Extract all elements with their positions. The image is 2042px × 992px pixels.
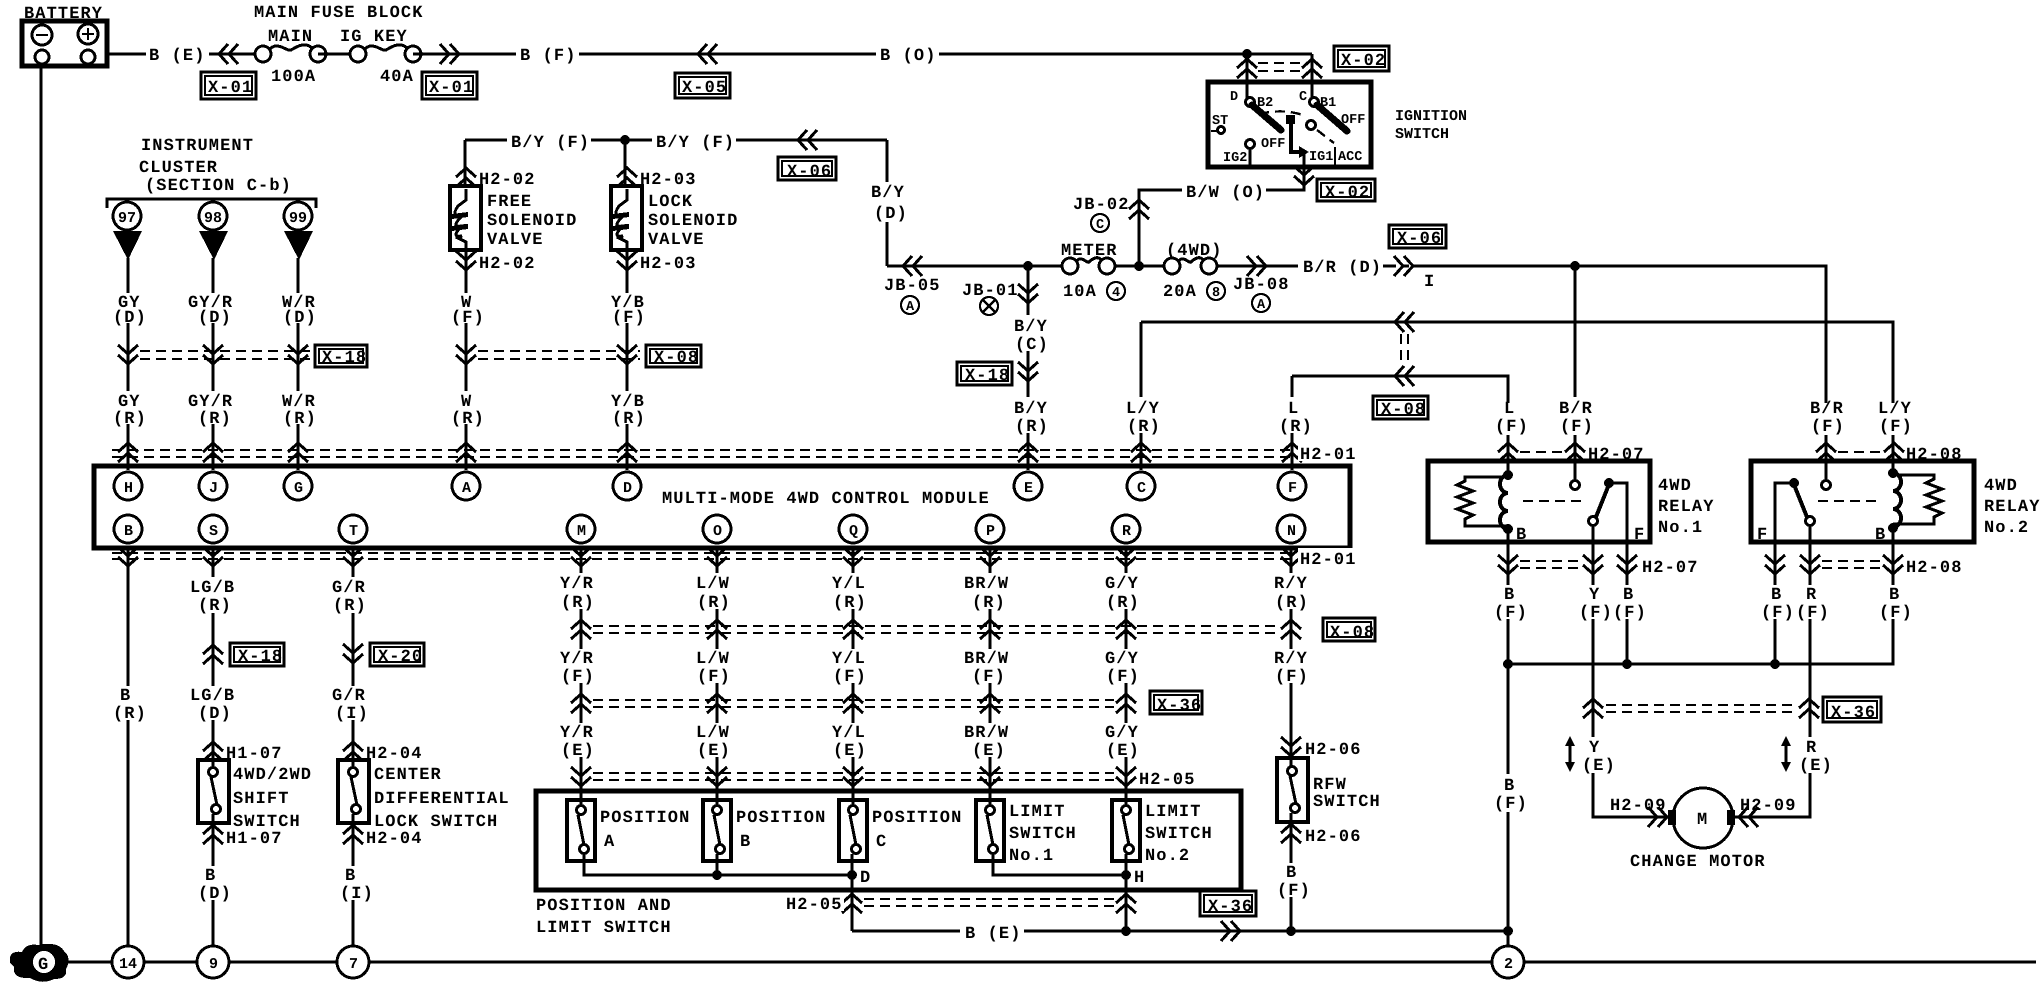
svg-text:(R): (R) [612, 410, 646, 429]
svg-text:SWITCH: SWITCH [1009, 825, 1077, 844]
svg-text:A: A [604, 833, 615, 852]
svg-text:B: B [124, 523, 133, 540]
connector box X-01 [201, 72, 256, 99]
connector chevron X-18 col E [1018, 362, 1038, 381]
svg-text:(D): (D) [283, 309, 317, 328]
label JB-08 [1233, 276, 1290, 313]
ignition switch labels [1212, 90, 1365, 166]
svg-text:20A: 20A [1163, 283, 1197, 302]
ground node 14 [112, 946, 144, 978]
label L/Y (F) relay2 [1872, 400, 1915, 437]
svg-text:LOCK: LOCK [648, 193, 693, 212]
relay1 switch [1589, 478, 1628, 542]
svg-text:B/W (O): B/W (O) [1186, 184, 1265, 203]
svg-text:(R): (R) [113, 410, 147, 429]
label B (F) [516, 43, 579, 66]
wire ignition output [1139, 152, 1304, 266]
connector chevron X-01 right [440, 44, 459, 64]
label B (F) left long wire [1491, 775, 1529, 814]
wire L column F [1291, 376, 1294, 470]
connector box X-02 [1334, 46, 1389, 71]
wire to relay2 corner [1412, 266, 1826, 461]
fuse MAIN 100A [255, 45, 326, 62]
wire 98 down [212, 258, 215, 470]
svg-text:(SECTION C-b): (SECTION C-b) [145, 177, 292, 196]
svg-text:X-36: X-36 [1157, 697, 1202, 716]
junction node B bottom [712, 870, 722, 880]
label BR/W (R) [962, 573, 1017, 613]
wire B/Y (F) row y140 [465, 140, 887, 266]
connector pin 97 [113, 202, 142, 260]
svg-text:B/R: B/R [1559, 400, 1593, 419]
svg-text:H2-09: H2-09 [1610, 797, 1667, 816]
label B/Y (R) [1008, 397, 1051, 437]
svg-text:(F): (F) [1106, 668, 1140, 687]
label B (O) [876, 43, 939, 66]
connector chevron H2-02 top [456, 168, 476, 187]
svg-text:H2-02: H2-02 [479, 255, 536, 274]
svg-text:B: B [1286, 864, 1297, 883]
label G/Y (R) [1103, 573, 1148, 613]
svg-text:DIFFERENTIAL: DIFFERENTIAL [374, 790, 510, 809]
svg-text:D: D [623, 480, 632, 497]
label POSITION AND LIMIT SWITCH [536, 897, 672, 938]
connector box X-18 col S [230, 643, 284, 667]
wire relay2 R down [1732, 542, 1810, 817]
ground node 2 [1492, 946, 1524, 978]
label B/Y (F) right [652, 130, 736, 153]
svg-text:H2-05: H2-05 [786, 896, 843, 915]
label POSITION C [872, 809, 962, 852]
wire L/Y feed to relay2 [1141, 322, 1893, 461]
svg-text:B: B [1516, 526, 1527, 545]
svg-text:X-20: X-20 [378, 648, 423, 667]
wire D down to B(E) [851, 875, 854, 931]
svg-text:14: 14 [119, 956, 137, 973]
svg-text:(F): (F) [1761, 604, 1795, 623]
wire limits internal bus H [993, 854, 1126, 875]
label JB-05 [884, 277, 941, 315]
svg-text:(F): (F) [1796, 604, 1830, 623]
connector box X-06 right [1389, 225, 1446, 249]
svg-text:4: 4 [1112, 286, 1120, 301]
svg-text:7: 7 [349, 956, 358, 973]
svg-text:BR/W: BR/W [964, 650, 1009, 669]
svg-text:(F): (F) [1879, 418, 1913, 437]
relay1 dashed link [1523, 500, 1585, 502]
svg-text:9: 9 [209, 956, 218, 973]
svg-text:L/Y: L/Y [1126, 400, 1160, 419]
svg-text:POSITION: POSITION [736, 809, 826, 828]
svg-text:(R): (R) [333, 597, 367, 616]
svg-text:Y: Y [1589, 739, 1600, 758]
connector chevron H2-04 bottom [343, 825, 363, 844]
svg-text:CLUSTER: CLUSTER [139, 159, 218, 178]
svg-text:H2-08: H2-08 [1906, 559, 1963, 578]
free solenoid valve [450, 186, 481, 250]
svg-text:L/W: L/W [696, 650, 730, 669]
wire B/Y column E [1027, 266, 1030, 470]
svg-text:Y/L: Y/L [832, 575, 866, 594]
svg-text:Q: Q [849, 523, 858, 540]
svg-text:F: F [1757, 526, 1768, 545]
connector chevron H2-03 bottom [617, 251, 637, 270]
wire free solenoid stub [465, 140, 466, 292]
connector X-02 chevrons [1237, 59, 1257, 78]
svg-text:X-08: X-08 [1381, 401, 1426, 420]
4wd relay no.1 box [1428, 461, 1650, 542]
svg-text:F: F [1288, 480, 1297, 497]
label Y (F) relay1 out [1573, 585, 1613, 623]
svg-text:X-06: X-06 [1397, 230, 1442, 249]
label L/W (E) [694, 723, 739, 761]
label L/W (F) [694, 649, 739, 687]
wire B (F) down to circle2 [1507, 664, 1510, 947]
wire positions internal bus D [584, 854, 852, 875]
connector X-36 row chevrons [571, 694, 591, 713]
svg-text:X-18: X-18 [965, 367, 1010, 386]
junction node rfw to B(E) [1286, 926, 1296, 936]
label L/W (R) [694, 573, 739, 613]
ignition common lever [1286, 115, 1309, 158]
relay1 coil stubs [1507, 461, 1510, 542]
wire A down [465, 292, 468, 470]
svg-text:H: H [124, 480, 133, 497]
label GY/R (R) [187, 391, 240, 429]
svg-text:X-02: X-02 [1325, 184, 1370, 203]
svg-text:RELAY: RELAY [1984, 498, 2041, 517]
wire pin R column [1125, 548, 1128, 806]
connector chevron after 20A [1247, 256, 1266, 276]
svg-text:SOLENOID: SOLENOID [487, 212, 577, 231]
label B (E) [146, 43, 209, 66]
multi-mode 4wd control module box [94, 466, 1350, 548]
svg-text:M: M [1697, 811, 1708, 830]
label H2-01 bottom [1298, 548, 1360, 570]
relay2 coil stubs [1892, 461, 1895, 542]
svg-text:BR/W: BR/W [964, 575, 1009, 594]
module pin M [567, 515, 595, 543]
svg-text:(F): (F) [1494, 795, 1528, 814]
lock solenoid label [648, 193, 738, 250]
svg-text:Y/L: Y/L [832, 650, 866, 669]
svg-text:JB-05: JB-05 [884, 277, 941, 296]
svg-text:(F): (F) [697, 668, 731, 687]
svg-text:(D): (D) [113, 309, 147, 328]
label B/R (F) relay1 [1553, 400, 1596, 437]
connector chevron H2-03 top [617, 168, 637, 187]
svg-text:(R): (R) [561, 594, 595, 613]
label B (F) relay2 coil out [1873, 585, 1913, 623]
svg-text:B (O): B (O) [880, 47, 937, 66]
connector X-18 row dashes [140, 351, 310, 359]
svg-text:LG/B: LG/B [190, 579, 235, 598]
svg-text:H2-06: H2-06 [1305, 741, 1362, 760]
connector exit dashes [864, 899, 1114, 906]
svg-text:X-08: X-08 [1330, 624, 1375, 643]
svg-text:2: 2 [1504, 956, 1513, 973]
label POSITION B [736, 809, 826, 852]
label BR/W (F) [962, 649, 1017, 687]
svg-text:4WD: 4WD [1984, 477, 2018, 496]
connector chevron JB-05 [903, 256, 922, 276]
instrument cluster label [139, 137, 292, 196]
svg-text:C: C [876, 833, 887, 852]
connector chevron H1-07 top [203, 742, 223, 761]
junction node meter [1134, 261, 1144, 271]
svg-text:H2-07: H2-07 [1642, 559, 1699, 578]
wire ground bus y664 [1508, 622, 1893, 664]
relay1 coil [1500, 475, 1508, 529]
svg-text:G/Y: G/Y [1105, 724, 1139, 743]
label Y (E) with arrow [1565, 736, 1618, 776]
ignition dashed link [1259, 111, 1306, 116]
svg-text:H2-06: H2-06 [1305, 828, 1362, 847]
connector box X-08 feed [1373, 396, 1428, 420]
relay2 dashed link [1818, 500, 1877, 502]
relay2 switch [1775, 478, 1815, 542]
svg-text:SWITCH: SWITCH [1395, 126, 1449, 143]
svg-text:(F): (F) [1811, 418, 1845, 437]
svg-text:X-05: X-05 [682, 79, 727, 98]
label LIMIT SWITCH No.1 [1009, 803, 1077, 866]
module pin Q [839, 515, 867, 543]
connector chevron H2-04 top [343, 742, 363, 761]
svg-text:I: I [1424, 273, 1435, 292]
wire relay1 B down to bus [1507, 542, 1510, 664]
svg-text:(F): (F) [561, 668, 595, 687]
svg-text:MAIN FUSE BLOCK: MAIN FUSE BLOCK [254, 4, 424, 23]
svg-text:LIMIT: LIMIT [1009, 803, 1066, 822]
relay2 top chevrons H2-08 [1816, 443, 1836, 462]
svg-text:B/Y: B/Y [871, 184, 905, 203]
svg-text:H2-04: H2-04 [366, 830, 423, 849]
label 4WD RELAY No.2 [1984, 477, 2041, 538]
change motor [1668, 788, 1735, 848]
svg-text:H2-04: H2-04 [366, 745, 423, 764]
wire 99 down [297, 258, 300, 470]
instrument cluster bracket [107, 199, 316, 208]
ignition lever B2 [1252, 105, 1281, 130]
svg-text:H2-01: H2-01 [1300, 446, 1357, 465]
svg-text:10A: 10A [1063, 283, 1097, 302]
svg-text:H1-07: H1-07 [226, 830, 283, 849]
svg-text:SHIFT: SHIFT [233, 790, 290, 809]
svg-text:X-36: X-36 [1831, 704, 1876, 723]
connector chevron B(E) [1221, 921, 1240, 941]
wire B(E) row y54 [107, 53, 263, 56]
connector X-36 row dashes [593, 700, 1114, 707]
svg-text:Y/R: Y/R [560, 575, 594, 594]
label L (F) [1493, 400, 1529, 437]
svg-text:B: B [1889, 586, 1900, 605]
module pin F [1278, 472, 1306, 500]
svg-text:B/Y (F): B/Y (F) [511, 134, 590, 153]
svg-text:(D): (D) [198, 309, 232, 328]
svg-text:G/Y: G/Y [1105, 575, 1139, 594]
wire relay2 F-B down to bus [1774, 542, 1777, 664]
label IGNITION SWITCH [1395, 108, 1467, 143]
svg-text:No.2: No.2 [1145, 847, 1190, 866]
wire B (R) pin B to circle 14 [127, 548, 130, 947]
svg-text:(E): (E) [1582, 757, 1616, 776]
module pin E [1014, 472, 1042, 500]
label R (F) relay2 out [1793, 585, 1830, 623]
connector chevron motor left [1648, 807, 1667, 827]
connector X-08 lower dashes [593, 626, 1279, 633]
svg-text:(F): (F) [451, 309, 485, 328]
4wd/2wd shift switch [198, 760, 229, 823]
connector X-18 row chevrons [118, 345, 138, 364]
connector box X-18 [315, 345, 367, 368]
svg-text:(E): (E) [561, 742, 595, 761]
ignition contact IG2 with stub [1246, 140, 1255, 166]
wire lock solenoid stub [625, 140, 627, 292]
svg-text:A: A [462, 480, 471, 497]
wire B/R down to relay1 [1574, 266, 1577, 461]
module pin C [1127, 472, 1155, 500]
svg-text:H1-07: H1-07 [226, 745, 283, 764]
relay1 center pin [1571, 461, 1580, 490]
svg-text:C: C [1096, 218, 1104, 233]
svg-text:B: B [205, 867, 216, 886]
svg-text:POSITION: POSITION [600, 809, 690, 828]
svg-text:C: C [1137, 480, 1146, 497]
svg-text:A: A [906, 300, 915, 315]
svg-text:D: D [1230, 90, 1238, 105]
svg-text:(F): (F) [833, 668, 867, 687]
junction node B/R split [1570, 261, 1580, 271]
label LG/B (D) [188, 686, 241, 724]
svg-text:S: S [209, 523, 218, 540]
wire pin Q column [852, 548, 855, 806]
connector box X-08 lower [1323, 618, 1375, 643]
svg-text:SOLENOID: SOLENOID [648, 212, 738, 231]
svg-text:(E): (E) [1799, 757, 1833, 776]
connector chevron X-20 col T [343, 644, 363, 663]
svg-text:(E): (E) [1106, 742, 1140, 761]
svg-text:X-36: X-36 [1208, 898, 1253, 917]
label Y/R (F) [558, 649, 603, 687]
svg-text:No.2: No.2 [1984, 519, 2029, 538]
connector chevron X-08 on L feed [1395, 366, 1414, 386]
connector box X-20 [370, 643, 424, 667]
connector chevron H2-05 exit [842, 894, 862, 913]
label B/R (F) relay2 [1804, 400, 1847, 437]
wire D down [626, 292, 629, 470]
wire pin M column [580, 548, 583, 806]
wire relay2 B down to bus corner [1893, 542, 1894, 664]
svg-text:X-18: X-18 [322, 349, 367, 368]
svg-text:L/W: L/W [696, 575, 730, 594]
svg-text:H2-05: H2-05 [1139, 771, 1196, 790]
fuse IG KEY 40A [350, 45, 421, 62]
svg-text:8: 8 [1212, 286, 1220, 301]
label Y/R (R) [558, 573, 603, 613]
fuse METER 10A [1062, 258, 1115, 274]
junction node B(E) corner [1503, 926, 1513, 936]
svg-text:97: 97 [118, 210, 136, 227]
lock solenoid valve [611, 186, 642, 250]
wire meter row y266 [887, 265, 1298, 268]
junction node B/Y [1023, 261, 1033, 271]
label G/R (I) [330, 686, 375, 724]
connector chevron X-08 on L/Y feed [1395, 312, 1414, 332]
svg-text:CENTER: CENTER [374, 766, 442, 785]
connector H2-05 row chevrons [571, 767, 591, 786]
svg-text:(F): (F) [1495, 418, 1529, 437]
svg-text:E: E [1024, 480, 1033, 497]
label Y/L (E) [830, 723, 875, 761]
junction node D [847, 870, 857, 880]
svg-text:METER: METER [1061, 242, 1118, 261]
relay1 resistor [1457, 477, 1508, 526]
svg-text:99: 99 [289, 210, 307, 227]
svg-text:No.1: No.1 [1009, 847, 1054, 866]
svg-text:(F): (F) [1579, 604, 1613, 623]
connector pin 99 [284, 202, 313, 260]
svg-text:B (F): B (F) [520, 47, 577, 66]
svg-text:(I): (I) [340, 885, 374, 904]
svg-text:(F): (F) [1494, 604, 1528, 623]
svg-text:(E): (E) [833, 742, 867, 761]
connector box X-08 [646, 345, 701, 368]
label W/R (R) [277, 391, 320, 429]
wire 97 down [127, 258, 130, 470]
position switch B [703, 800, 731, 861]
svg-text:B: B [1504, 777, 1515, 796]
svg-text:(R): (R) [1275, 594, 1309, 613]
svg-text:B: B [1771, 586, 1782, 605]
label B/Y (F) left [507, 130, 591, 153]
wire L/Y column C [1140, 322, 1143, 470]
svg-text:H2-02: H2-02 [479, 171, 536, 190]
connector box X-02 lower [1317, 179, 1375, 203]
label CENTER DIFFERENTIAL LOCK SWITCH [374, 766, 510, 832]
connector box X-36 motor [1823, 697, 1881, 723]
svg-text:IGNITION: IGNITION [1395, 108, 1467, 125]
svg-text:CHANGE MOTOR: CHANGE MOTOR [1630, 853, 1766, 872]
wire relay1 Y down [1593, 542, 1674, 817]
module pin G [284, 472, 312, 500]
svg-text:MAIN: MAIN [268, 28, 313, 47]
wire down to ignition D [1246, 54, 1249, 101]
svg-text:LIMIT SWITCH: LIMIT SWITCH [536, 919, 672, 938]
ground node 9 [197, 946, 229, 978]
module pin D [613, 472, 641, 500]
svg-text:X-18: X-18 [238, 648, 283, 667]
connector chevron H2-06 bottom [1281, 824, 1301, 843]
svg-text:B/Y: B/Y [1014, 400, 1048, 419]
svg-text:(E): (E) [697, 742, 731, 761]
fuse 4WD 20A [1164, 258, 1217, 274]
relay1 bottom chevrons H2-07 [1498, 555, 1518, 574]
label H2-05 exit [784, 893, 844, 915]
svg-text:(F): (F) [612, 309, 646, 328]
label GY (D) [112, 293, 147, 328]
module pin O [703, 515, 731, 543]
svg-text:B/Y: B/Y [1014, 318, 1048, 337]
svg-text:B/R: B/R [1810, 400, 1844, 419]
svg-text:RELAY: RELAY [1658, 498, 1715, 517]
svg-text:(F): (F) [1560, 418, 1594, 437]
svg-text:Y/R: Y/R [560, 724, 594, 743]
svg-text:B (E): B (E) [965, 925, 1022, 944]
connector box X-06 [778, 157, 836, 182]
wire pin T column [352, 548, 355, 947]
wire pin O column [716, 548, 719, 806]
svg-text:(R): (R) [1015, 418, 1049, 437]
